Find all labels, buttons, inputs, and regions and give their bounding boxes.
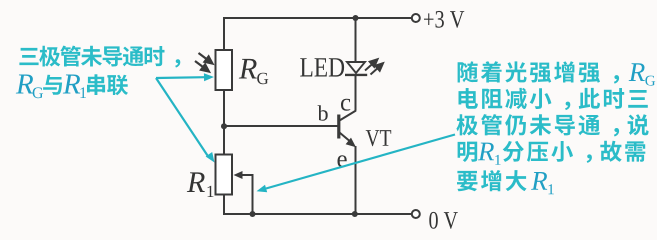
annotation arrow to R1 (156, 78, 208, 156)
node: wiper to bottom rail (250, 211, 256, 217)
transistor VT: base bar (337, 115, 340, 139)
label R1 (187, 172, 205, 192)
potentiometer R1 body (216, 155, 233, 195)
terminal +3V (412, 14, 420, 22)
label e (338, 155, 347, 167)
annotation text left line2 fragment: R1 (63, 75, 80, 94)
wire: LED cathode to collector (355, 75, 357, 111)
LED light emission arrows (365, 59, 383, 74)
wire: LED branch top (rail to LED anode) (355, 18, 357, 62)
annotation text left line2 fragment: 与 (43, 75, 62, 95)
annotation text left line1: 三极管未导通时， (19, 46, 180, 68)
LED symbol (diode triangle + cathode bar) (345, 62, 367, 75)
annotation text right line4a: 明 (458, 142, 478, 162)
wire: base wire from divider node to transistor base (224, 125, 338, 127)
light arrows onto RG (195, 53, 213, 72)
terminal 0V (412, 210, 420, 218)
annotation arrow from right note to R1 wiper (266, 135, 455, 189)
wire: left branch bottom (R1 to bottom rail) (223, 195, 225, 216)
annotation text left line2: RG与R1串联 (16, 75, 33, 94)
annotation arrow to RG (156, 76, 205, 79)
wire: top rail from left branch to +3V terminal (224, 17, 412, 19)
resistor RG (photoresistor body) (216, 50, 233, 90)
potentiometer R1 wiper arrow (240, 174, 246, 176)
label VT (366, 130, 392, 146)
node: emitter to bottom rail (352, 211, 358, 217)
wire: R1 wiper lead (240, 175, 253, 214)
wire: emitter down to bottom rail (355, 146, 357, 214)
label RG (239, 59, 257, 79)
annotation text right line4 fragment: R1 (478, 143, 494, 161)
annotation text right line2: 电阻减小，此时三 (459, 88, 648, 110)
annotation text right line4b: 分压小，故需 (503, 141, 646, 163)
transistor VT: emitter lead with arrow (340, 133, 353, 144)
label c (341, 99, 350, 111)
transistor VT: collector lead (340, 111, 357, 121)
annotation text right line1 fragment: RG (629, 63, 645, 81)
wire: bottom rail from left branch to 0V terminal (224, 213, 412, 215)
wire: left branch middle (RG to R1) (223, 90, 225, 155)
label LED (300, 58, 344, 76)
annotation text right line5a: 要增大 (457, 170, 527, 191)
annotation text left line2 fragment: 串联 (87, 74, 128, 95)
annotation text right line5 fragment: R1 (531, 172, 547, 190)
label b (318, 105, 328, 121)
node: top rail / LED branch (353, 15, 359, 21)
node: divider tap to base (221, 123, 227, 129)
wire: left branch top (rail to RG) (223, 17, 225, 50)
annotation text right line3: 极管仍未导通，说 (456, 114, 648, 136)
annotation text right line1: 随着光强增强， (458, 61, 619, 83)
